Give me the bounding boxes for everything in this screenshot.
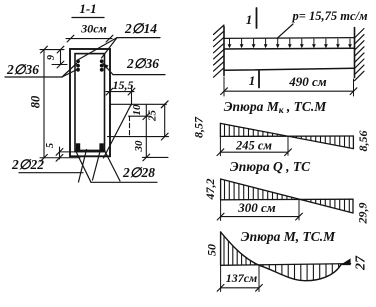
svg-text:27: 27 bbox=[354, 255, 369, 271]
svg-text:Эпюра М, ТС.М: Эпюра М, ТС.М bbox=[241, 229, 336, 244]
svg-text:Эпюра Мк , ТС.М: Эпюра Мк , ТС.М bbox=[224, 99, 328, 116]
svg-text:15,5: 15,5 bbox=[113, 78, 134, 92]
svg-text:Эпюра Q , ТС: Эпюра Q , ТС bbox=[230, 159, 311, 174]
svg-text:80: 80 bbox=[29, 95, 43, 108]
svg-text:1: 1 bbox=[249, 73, 256, 88]
svg-text:2∅36: 2∅36 bbox=[6, 62, 39, 77]
svg-text:8,56: 8,56 bbox=[356, 131, 370, 152]
svg-text:30: 30 bbox=[133, 140, 145, 153]
svg-text:9: 9 bbox=[46, 55, 57, 60]
svg-text:29,9: 29,9 bbox=[356, 203, 370, 225]
svg-text:1: 1 bbox=[246, 12, 253, 27]
svg-text:8,57: 8,57 bbox=[192, 116, 206, 138]
svg-text:50: 50 bbox=[205, 244, 219, 256]
svg-text:2∅36: 2∅36 bbox=[126, 56, 159, 71]
svg-text:137см: 137см bbox=[226, 271, 258, 285]
svg-text:245 см: 245 см bbox=[235, 139, 272, 153]
svg-text:30см: 30см bbox=[80, 22, 107, 36]
svg-text:10: 10 bbox=[131, 104, 143, 116]
svg-text:2∅22: 2∅22 bbox=[11, 157, 44, 172]
svg-text:5: 5 bbox=[45, 143, 56, 148]
svg-text:1-1: 1-1 bbox=[79, 1, 96, 16]
svg-text:2∅28: 2∅28 bbox=[122, 165, 155, 180]
svg-text:300 см: 300 см bbox=[237, 200, 276, 215]
svg-text:47,2: 47,2 bbox=[203, 179, 217, 201]
svg-text:25: 25 bbox=[147, 110, 159, 123]
svg-text:p= 15,75 тс/м: p= 15,75 тс/м bbox=[291, 9, 367, 23]
svg-text:2∅14: 2∅14 bbox=[124, 21, 157, 36]
svg-text:490 см: 490 см bbox=[288, 74, 327, 89]
